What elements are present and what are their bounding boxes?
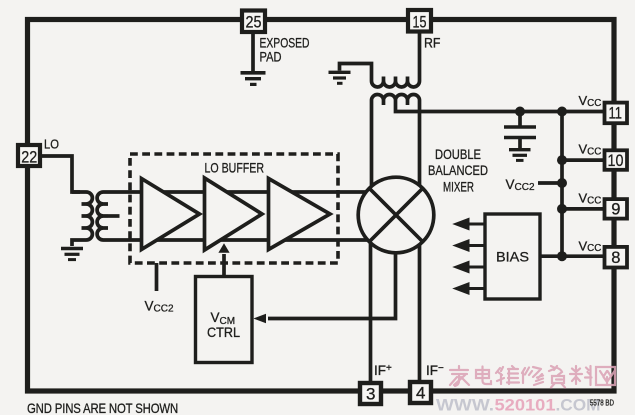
svg-text:LO: LO — [44, 137, 59, 152]
LO transformer primary winding T1a — [72, 192, 92, 246]
ground exposed pad — [241, 73, 266, 85]
svg-text:10: 10 — [608, 152, 624, 170]
capacitor C1 stub — [518, 112, 522, 126]
pin 25 — [242, 11, 265, 33]
watermark char 7 — [596, 367, 615, 385]
watermark char 3 — [496, 366, 519, 384]
BIAS arrow 1 — [457, 220, 485, 293]
svg-text:PAD: PAD — [260, 49, 282, 65]
mixer X — [370, 189, 423, 242]
ground capacitor C1 — [509, 150, 531, 161]
svg-text:BIAS: BIAS — [496, 249, 529, 265]
junction dot bus vcc2 — [557, 178, 567, 188]
svg-text:DOUBLE: DOUBLE — [435, 146, 481, 162]
wire mixer tap to VCM CTRL — [268, 240, 396, 319]
wire RF secondary center tap to VCC pin 11 — [396, 105, 605, 112]
pin 15 — [408, 10, 431, 32]
svg-text:15: 15 — [413, 12, 427, 31]
pin 4 — [410, 382, 431, 403]
watermark chinese — [450, 366, 615, 388]
svg-text:MIXER: MIXER — [443, 179, 474, 195]
wire VCC2 stub under buffer — [155, 263, 159, 291]
junction dot bus top — [557, 107, 567, 117]
watermark char 1 — [450, 366, 469, 386]
watermark char 4 — [522, 367, 543, 385]
pin 10 — [605, 150, 628, 170]
svg-text:8: 8 — [611, 249, 620, 267]
wire mixer IF+ to pin 3 — [369, 230, 373, 383]
wire bus to pin 10 — [562, 158, 604, 162]
amplifier A3 — [269, 179, 331, 250]
wire mixer IF- to pin 4 — [418, 230, 422, 382]
wire pin25 to ground — [251, 31, 255, 71]
pin 8 — [605, 247, 628, 268]
junction dot cap — [515, 107, 525, 117]
svg-text:5578 BD: 5578 BD — [590, 399, 614, 408]
pin 9 — [605, 199, 628, 219]
svg-text:3: 3 — [366, 385, 375, 404]
svg-text:BALANCED: BALANCED — [428, 162, 488, 178]
capacitor C1 plates — [504, 125, 536, 129]
BIAS box — [485, 214, 540, 299]
VCC bus vertical — [560, 112, 564, 257]
junction dot bus pin10 — [557, 155, 567, 165]
svg-text:25: 25 — [246, 12, 262, 31]
watermark char 6 — [570, 366, 592, 385]
junction dot bus pin9 — [557, 204, 567, 214]
arrowhead into VCM CTRL — [254, 314, 267, 323]
amplifier A2 — [205, 178, 263, 250]
pin 22 — [18, 145, 40, 167]
amplifier A1 — [142, 179, 200, 250]
wire bus to pin 9 — [562, 207, 604, 211]
wire VCM CTRL up-arrow line — [222, 254, 226, 277]
wire LO- line to mixer — [108, 238, 372, 242]
ground under LO transformer — [61, 249, 83, 260]
wire VCC2 stub to bus — [538, 181, 562, 185]
VCM CTRL box — [196, 277, 253, 363]
svg-text:GND PINS ARE NOT SHOWN: GND PINS ARE NOT SHOWN — [27, 400, 178, 415]
svg-text:520101: 520101 — [495, 396, 556, 415]
BIAS arrow 2 — [466, 244, 484, 247]
wire BIAS to bus to pin 8 — [540, 254, 604, 258]
watermark char 2 — [476, 367, 491, 385]
LO transformer secondary center tap stub — [108, 214, 120, 218]
RF transformer primary winding T2a — [340, 31, 420, 87]
svg-text:22: 22 — [21, 148, 37, 167]
svg-text:9: 9 — [611, 201, 620, 219]
BIAS arrow 3 — [466, 266, 484, 269]
wire pin22 to LO transformer primary — [40, 156, 81, 192]
svg-text:11: 11 — [609, 104, 623, 122]
svg-text:RF: RF — [424, 35, 441, 51]
junction dot bus pin8 — [557, 251, 567, 261]
arrowhead up into A2 — [218, 243, 229, 253]
BIAS arrow 4 — [466, 287, 484, 290]
svg-text:LO BUFFER: LO BUFFER — [205, 160, 265, 176]
svg-text:CTRL: CTRL — [207, 325, 240, 340]
watermark char 5 — [549, 366, 565, 388]
pin 3 — [360, 383, 381, 404]
pin 11 — [605, 103, 628, 124]
LO transformer secondary winding T1b — [97, 192, 108, 240]
svg-text:WWW.: WWW. — [436, 396, 494, 415]
mixer circle — [358, 177, 434, 253]
ground RF transformer primary — [329, 72, 351, 83]
RF transformer secondary winding T2b — [372, 95, 420, 201]
svg-text:4: 4 — [416, 384, 425, 403]
LO BUFFER dashed box — [130, 154, 338, 263]
wire LO+ line to mixer — [108, 190, 372, 194]
